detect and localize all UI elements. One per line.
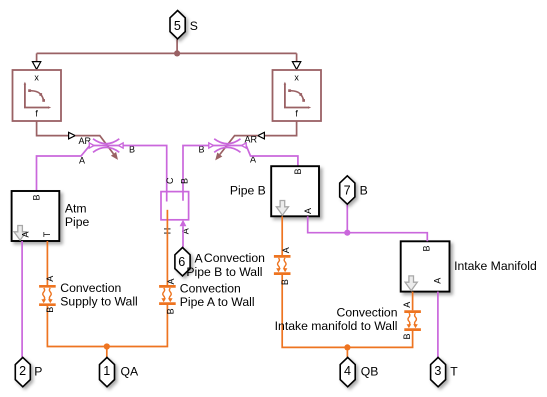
svg-text:Convection: Convection <box>337 306 398 320</box>
junction dot QA <box>104 343 110 349</box>
svg-text:QB: QB <box>361 364 379 378</box>
port 7 hexagon <box>340 176 355 204</box>
svg-text:A: A <box>21 231 31 237</box>
svg-text:Pipe B: Pipe B <box>230 184 266 198</box>
svg-text:A: A <box>166 278 176 284</box>
svg-text:3: 3 <box>434 364 441 378</box>
svg-text:Pipe B to Wall: Pipe B to Wall <box>186 265 262 279</box>
wire small block A to port 6 <box>182 226 184 247</box>
svg-text:C: C <box>165 177 175 184</box>
svg-text:B: B <box>45 307 55 313</box>
input arrow right lookup U2 <box>292 62 300 70</box>
port 1 hexagon <box>100 357 115 386</box>
port 2 hexagon <box>15 357 30 386</box>
port 6 hexagon <box>175 248 190 276</box>
junction dot at (177,53) <box>174 50 180 56</box>
junction dot QB <box>344 344 350 350</box>
svg-text:T: T <box>42 231 52 237</box>
wire junction to port 1 <box>106 347 108 358</box>
svg-text:B: B <box>402 333 412 339</box>
purple A arrowhead into small block <box>180 220 187 226</box>
wire down to left lookup input <box>36 53 38 61</box>
svg-text:6: 6 <box>178 255 185 269</box>
wire right lookup output to right valve AR <box>264 121 296 136</box>
gray arrow icon <box>405 276 417 291</box>
svg-text:A: A <box>79 156 85 166</box>
wire junction to port 4 <box>346 347 348 357</box>
small pipe block (C,B / H,A) <box>161 177 191 234</box>
lookup table block U2 (right) <box>273 70 322 121</box>
port arrow into left valve AR <box>69 132 76 139</box>
wire left lookup output to left valve AR <box>37 121 69 136</box>
wire S port to junction (physical signal, maroon) <box>37 39 297 61</box>
svg-text:A: A <box>281 247 291 253</box>
wire down to right lookup input <box>296 53 298 61</box>
left valve restriction icon V1 <box>90 139 167 202</box>
svg-text:B: B <box>422 245 432 251</box>
input arrow left lookup U1 <box>32 62 40 70</box>
svg-text:P: P <box>34 364 42 378</box>
svg-text:A: A <box>303 208 313 214</box>
svg-text:QA: QA <box>121 364 139 378</box>
svg-text:A: A <box>432 278 442 284</box>
svg-text:S: S <box>190 19 198 33</box>
right valve AR internal signal arrow <box>220 136 258 155</box>
port 5 hexagon <box>170 11 185 39</box>
svg-text:Pipe: Pipe <box>65 215 90 229</box>
wire Atm Pipe T to convection supply, QA bus <box>47 241 167 347</box>
svg-text:B: B <box>180 178 190 184</box>
svg-text:x: x <box>294 73 299 83</box>
svg-text:A: A <box>45 276 55 282</box>
svg-text:Convection: Convection <box>204 251 265 265</box>
svg-text:Intake manifold to Wall: Intake manifold to Wall <box>275 319 398 333</box>
svg-text:1: 1 <box>103 364 110 378</box>
block Atm Pipe <box>12 191 60 241</box>
convective heat transfer icon: Pipe B <box>274 256 291 273</box>
convective heat transfer icon: Supply <box>39 286 56 304</box>
svg-text:Supply to Wall: Supply to Wall <box>60 295 137 309</box>
wire Intake Manifold T to convection intake <box>412 292 414 311</box>
svg-text:x: x <box>34 73 39 83</box>
svg-text:A: A <box>402 302 412 308</box>
port 4 hexagon <box>340 357 355 386</box>
svg-text:Convection: Convection <box>180 281 241 295</box>
svg-text:B: B <box>280 279 290 285</box>
wire Pipe B T to convection Pipe B, QB bus <box>282 216 412 347</box>
block Pipe B <box>271 166 319 216</box>
gray arrow icon <box>14 226 26 241</box>
right valve restriction icon V2 <box>209 139 298 166</box>
convective heat transfer icon: Intake Manifold <box>404 312 421 330</box>
svg-text:7: 7 <box>344 184 351 198</box>
svg-text:A: A <box>195 252 204 266</box>
convective heat transfer icon: Pipe A <box>159 286 176 303</box>
block Intake Manifold <box>401 241 450 291</box>
wire small block B port up to right valve B <box>183 146 209 201</box>
svg-text:5: 5 <box>174 19 181 33</box>
svg-text:Pipe A to Wall: Pipe A to Wall <box>180 295 255 309</box>
svg-text:B: B <box>293 168 303 174</box>
left valve AR internal signal arrow <box>75 136 113 154</box>
port arrow into right valve AR <box>258 132 265 139</box>
junction dot port 7 <box>344 230 350 236</box>
svg-text:Intake Manifold: Intake Manifold <box>454 259 537 273</box>
wire main horizontal bus y=53.4 <box>37 52 297 54</box>
svg-text:2: 2 <box>19 364 26 378</box>
svg-text:Atm: Atm <box>65 201 87 215</box>
port 3 hexagon <box>431 357 446 386</box>
wire Atm Pipe A to port 2 <box>21 241 23 357</box>
wire Intake Manifold A to port 3 <box>437 292 439 358</box>
lookup table block U1 (left) <box>13 70 62 121</box>
svg-text:B: B <box>165 308 175 314</box>
svg-text:T: T <box>450 364 458 378</box>
svg-text:Convection: Convection <box>60 281 121 295</box>
svg-text:B: B <box>31 194 41 200</box>
orange stub H inside small block <box>166 210 168 285</box>
svg-text:A: A <box>181 228 191 234</box>
svg-text:4: 4 <box>344 364 351 378</box>
svg-text:B: B <box>360 184 368 198</box>
gray arrow icon <box>276 201 288 216</box>
wire Atm Pipe B up to left valve A <box>37 146 90 191</box>
wire Pipe B A to Intake Manifold B <box>308 216 428 241</box>
wire port 7 to junction <box>346 205 348 233</box>
